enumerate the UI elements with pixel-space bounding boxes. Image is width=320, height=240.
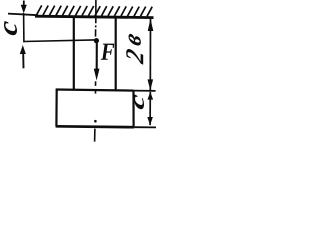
dimension c (right) top arrowhead bbox=[148, 92, 154, 100]
ceiling thin left extension line bbox=[8, 14, 38, 16]
force F shaft bbox=[96, 42, 98, 71]
ceiling main support line bbox=[35, 16, 154, 17]
block bottom extension line (to right dimensions) bbox=[134, 126, 156, 128]
dimension c line (right lower) bbox=[149, 92, 151, 125]
centerline vertical axis bbox=[95, 0, 96, 142]
lower block bottom edge bbox=[56, 125, 135, 129]
ceiling hatching bbox=[37, 5, 153, 16]
label F (force) bbox=[101, 44, 115, 60]
lower block left edge bbox=[55, 89, 57, 126]
upper column right edge bbox=[115, 16, 117, 90]
force F junction dot bbox=[94, 38, 99, 43]
lower block top edge bbox=[56, 90, 134, 91]
dimension 2в top arrowhead bbox=[148, 19, 154, 31]
dimension c (left) line upper part with tail bbox=[23, 1, 25, 6]
block top extension line (to right dimensions) bbox=[134, 90, 156, 92]
centerline dot (lower block) bbox=[94, 120, 97, 123]
lower block right edge bbox=[132, 90, 134, 126]
upper column left edge bbox=[73, 16, 75, 90]
force application level line bbox=[24, 40, 95, 42]
dimension 2в bottom arrowhead bbox=[148, 79, 154, 90]
label c (left dimension) bbox=[4, 21, 17, 36]
dimension c (left) bottom arrowhead bbox=[20, 45, 26, 54]
dimension c (right) bottom arrowhead bbox=[147, 117, 153, 125]
label c (right lower dimension) bbox=[134, 94, 144, 110]
dimension c (left) top arrowhead bbox=[21, 5, 27, 14]
dimension c (left) lower stem bbox=[22, 53, 24, 68]
dimension 2в line (right upper) bbox=[149, 19, 151, 90]
force F arrowhead bbox=[94, 69, 100, 81]
label 2в (right upper dimension) bbox=[126, 48, 143, 65]
